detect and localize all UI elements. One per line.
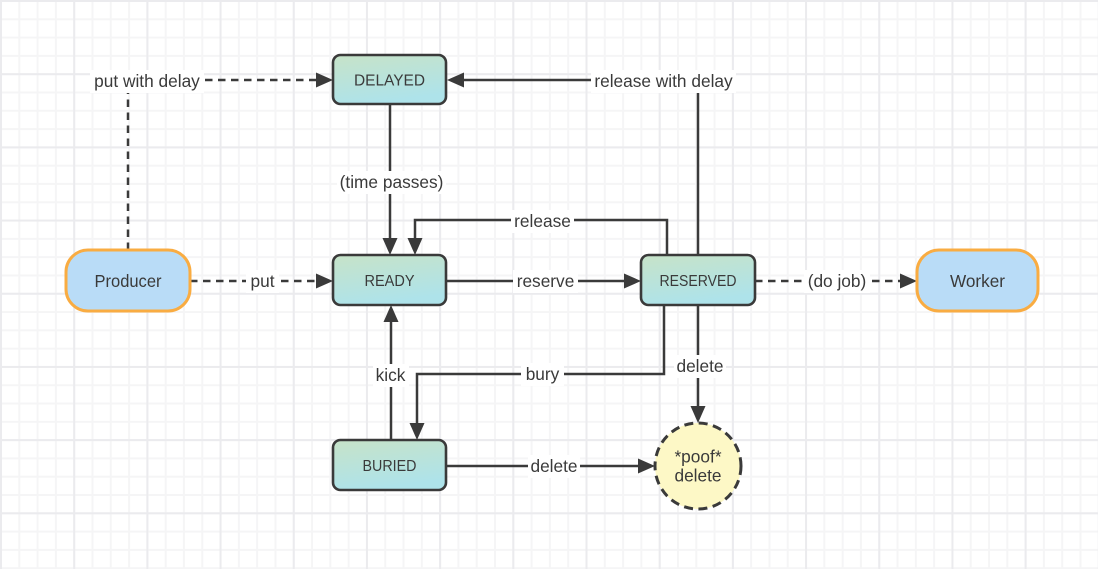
wire (446, 465, 640, 468)
label delete (528, 455, 580, 478)
svg-text:reserve: reserve (517, 271, 575, 291)
svg-text:release with delay: release with delay (594, 71, 733, 91)
state box RESERVED (641, 255, 755, 305)
svg-text:Worker: Worker (950, 271, 1005, 291)
arrowhead (384, 305, 399, 322)
svg-text:put with delay: put with delay (94, 71, 200, 91)
svg-text:Producer: Producer (95, 271, 162, 291)
svg-text:(do job): (do job) (808, 271, 867, 291)
label release with delay (591, 70, 736, 93)
arrow "(time passes)" (DELAYED to READY) (337, 104, 446, 255)
label put (246, 270, 279, 293)
label kick (373, 364, 409, 387)
svg-text:kick: kick (376, 365, 406, 385)
arrow "put with delay" (Producer to DELAYED) (90, 70, 333, 250)
svg-text:DELAYED: DELAYED (354, 73, 425, 90)
arrow "(do job)" (RESERVED to Worker) (755, 270, 917, 293)
label (time passes) (337, 171, 446, 194)
arrowhead (316, 73, 333, 88)
label release (511, 210, 574, 233)
arrow "release with delay" (RESERVED to DELAYED) (447, 70, 736, 255)
arrow "reserve" (READY to RESERVED) (446, 270, 641, 293)
svg-text:put: put (250, 271, 274, 291)
label (do job) (804, 270, 870, 293)
arrowhead (383, 238, 398, 255)
wire (190, 280, 318, 283)
arrow "delete" (RESERVED to poof circle) (674, 305, 726, 423)
poof delete circle (655, 423, 741, 509)
wire (390, 320, 393, 440)
svg-text:delete: delete (674, 466, 721, 486)
arrowhead (410, 423, 425, 440)
wire (128, 80, 318, 250)
svg-text:BURIED: BURIED (363, 458, 417, 475)
svg-text:delete: delete (530, 456, 577, 476)
svg-text:release: release (514, 211, 571, 231)
wire (755, 280, 902, 283)
arrowhead (447, 73, 464, 88)
label bury (521, 363, 564, 386)
svg-text:READY: READY (365, 273, 415, 290)
arrowhead (691, 406, 706, 423)
wire (462, 80, 698, 255)
wire (417, 305, 664, 425)
wire (415, 220, 667, 255)
wire (389, 104, 392, 240)
svg-text:(time passes): (time passes) (340, 172, 444, 192)
label reserve (513, 270, 578, 293)
arrowhead (624, 274, 641, 289)
svg-text:delete: delete (676, 356, 723, 376)
arrow "bury" (RESERVED to BURIED) (410, 305, 665, 440)
terminal Producer (66, 250, 190, 311)
svg-text:RESERVED: RESERVED (660, 273, 737, 290)
arrow "release" (RESERVED to READY) (408, 210, 668, 255)
state box DELAYED (333, 55, 446, 104)
arrowhead (408, 238, 423, 255)
arrowhead (638, 459, 655, 474)
arrowhead (316, 274, 333, 289)
svg-text:bury: bury (526, 364, 560, 384)
label put with delay (90, 70, 204, 93)
state box READY (333, 255, 446, 305)
arrow "put" (Producer to READY) (190, 270, 333, 293)
wire (446, 280, 626, 283)
arrow "kick" (BURIED to READY) (373, 305, 409, 440)
arrow "delete" (BURIED to poof circle) (446, 455, 655, 478)
wire (697, 305, 700, 408)
svg-text:*poof*: *poof* (674, 447, 721, 467)
terminal Worker (917, 250, 1038, 311)
label delete (674, 355, 726, 378)
arrowhead (900, 274, 917, 289)
state box BURIED (333, 440, 446, 490)
